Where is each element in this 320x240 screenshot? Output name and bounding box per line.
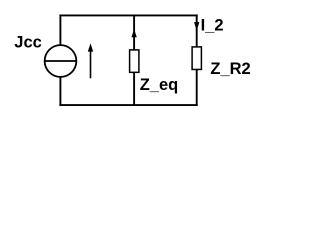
wire: bottom horizontal net [59,104,197,106]
wire: top horizontal net from Jcc to Z_R2 [59,14,197,16]
arrow: current direction up on Z_eq branch [131,29,136,37]
wire: left branch bottom segment (Jcc source to bottom net) [59,77,61,106]
svg-text:Z_R2: Z_R2 [210,60,250,78]
wire: middle branch upper segment (top net to Z_eq) [133,14,135,50]
arrow: current I_2 direction (down) on Z_R2 branch [194,22,199,30]
svg-text:Z_eq: Z_eq [140,76,179,94]
impedance Z_R2: rectangle [192,47,201,70]
arrow: Jcc current direction (up), right of source [90,51,92,79]
current source Jcc: horizontal bar [45,60,77,62]
wire: left branch top segment (top net to Jcc source) [59,14,61,45]
impedance Z_eq: rectangle [130,50,139,72]
wire: right branch upper segment (top net to Z_R2) [196,14,198,47]
wire: right branch lower segment (Z_R2 to bottom net) [196,69,198,106]
svg-text:Jcc: Jcc [14,34,42,52]
wire: middle branch lower segment (Z_eq to bottom net) [133,72,135,106]
svg-text:I_2: I_2 [201,16,224,34]
current source Jcc: circle [45,45,77,77]
